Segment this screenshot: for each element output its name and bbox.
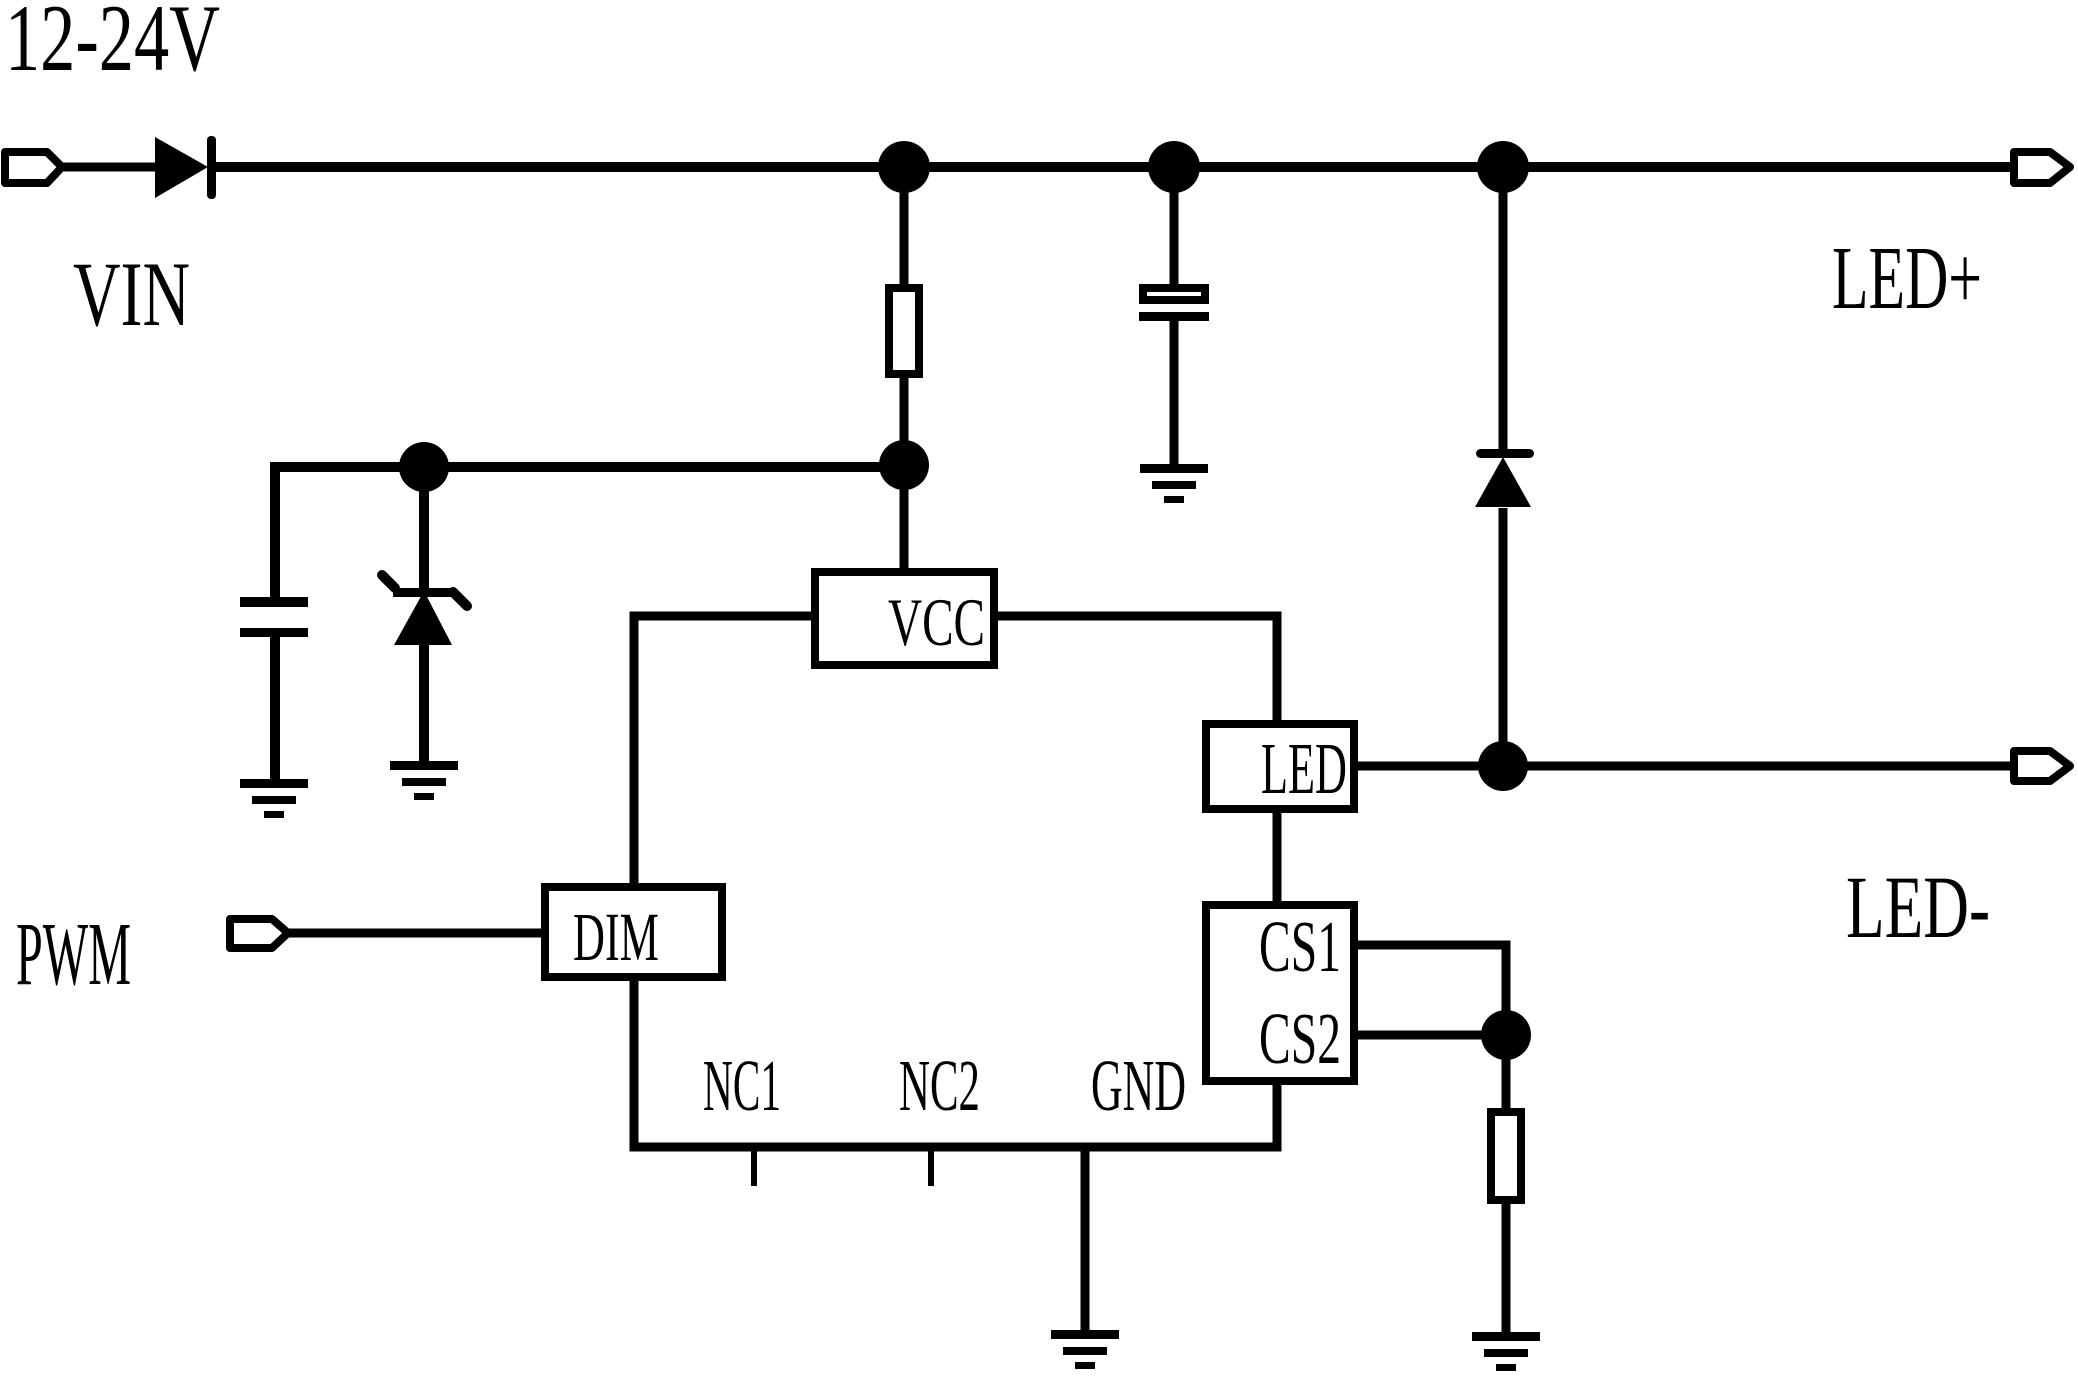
- wire PWM to DIM: [286, 929, 545, 938]
- pin box CS1/CS2: [1206, 905, 1354, 1081]
- pin box LED: [1206, 724, 1354, 809]
- junction node VCC wire / left branch: [879, 440, 929, 490]
- wire D2 to LED- node: [1499, 508, 1508, 766]
- svg-text:LED+: LED+: [1832, 229, 1982, 328]
- svg-text:VCC: VCC: [888, 584, 985, 660]
- wire rail to D2: [1499, 167, 1508, 450]
- svg-text:LED-: LED-: [1846, 859, 1990, 957]
- capacitor C2 (polarized): [1139, 288, 1209, 321]
- junction node zener top: [399, 442, 449, 492]
- ground below C1: [240, 779, 308, 818]
- svg-text:NC2: NC2: [899, 1045, 980, 1126]
- wire rail to C2: [1170, 167, 1179, 290]
- wire C1 to ground: [270, 637, 280, 781]
- ground below C2: [1140, 464, 1208, 503]
- port connector PWM: [230, 919, 288, 948]
- junction node CS1/CS2: [1481, 1010, 1531, 1060]
- svg-text:LED: LED: [1261, 728, 1347, 809]
- port connector VIN: [5, 152, 62, 183]
- svg-text:PWM: PWM: [16, 905, 131, 1004]
- diode D2 (vertical, cathode up): [1475, 449, 1534, 507]
- wire CS2 to junction: [1358, 1031, 1506, 1040]
- svg-text:CS2: CS2: [1259, 998, 1341, 1079]
- IC U1 body outline: [634, 616, 1277, 1147]
- wire CS1 to junction: [1358, 945, 1506, 1035]
- wire C2 to ground: [1170, 321, 1179, 466]
- svg-text:12-24V: 12-24V: [5, 0, 220, 91]
- junction node at R1 top: [878, 141, 930, 193]
- pin box VCC: [815, 572, 994, 665]
- wire Z1 to ground: [419, 645, 429, 763]
- ground below GND pin: [1051, 1330, 1119, 1369]
- wire junction to R2: [1502, 1035, 1511, 1114]
- junction node at D2 top: [1477, 141, 1529, 193]
- pin stub NC1: [751, 1147, 757, 1186]
- wire top rail VIN to LED+: [215, 162, 2014, 172]
- wire junction to zener Z1: [419, 467, 429, 590]
- port connector LED-: [2014, 751, 2070, 781]
- wire LED pin to LED- port: [1358, 762, 2014, 771]
- junction node LED- / D2: [1478, 741, 1528, 791]
- ground below R2: [1472, 1332, 1540, 1371]
- svg-text:VIN: VIN: [73, 243, 190, 345]
- wire R1 to VCC: [900, 374, 909, 572]
- pin box DIM: [545, 887, 722, 977]
- wire R2 to ground: [1502, 1198, 1511, 1334]
- wire left branch to C1: [275, 467, 904, 599]
- svg-text:GND: GND: [1091, 1045, 1186, 1126]
- wire VIN to D1: [60, 163, 160, 172]
- resistor R1: [889, 288, 919, 374]
- svg-text:DIM: DIM: [573, 899, 659, 975]
- zener diode Z1: [382, 575, 467, 645]
- svg-text:NC1: NC1: [703, 1045, 781, 1126]
- capacitor C1 plates: [240, 597, 308, 637]
- svg-text:CS1: CS1: [1259, 906, 1341, 987]
- port connector LED+: [2014, 152, 2070, 183]
- pin stub NC2: [928, 1147, 934, 1186]
- diode D1 (input series diode): [155, 136, 216, 199]
- wire GND pin to ground: [1081, 1147, 1090, 1332]
- resistor R2: [1491, 1112, 1521, 1200]
- junction node at C2 top: [1148, 141, 1200, 193]
- ground below Z1: [390, 761, 458, 800]
- wire rail to R1: [900, 167, 909, 290]
